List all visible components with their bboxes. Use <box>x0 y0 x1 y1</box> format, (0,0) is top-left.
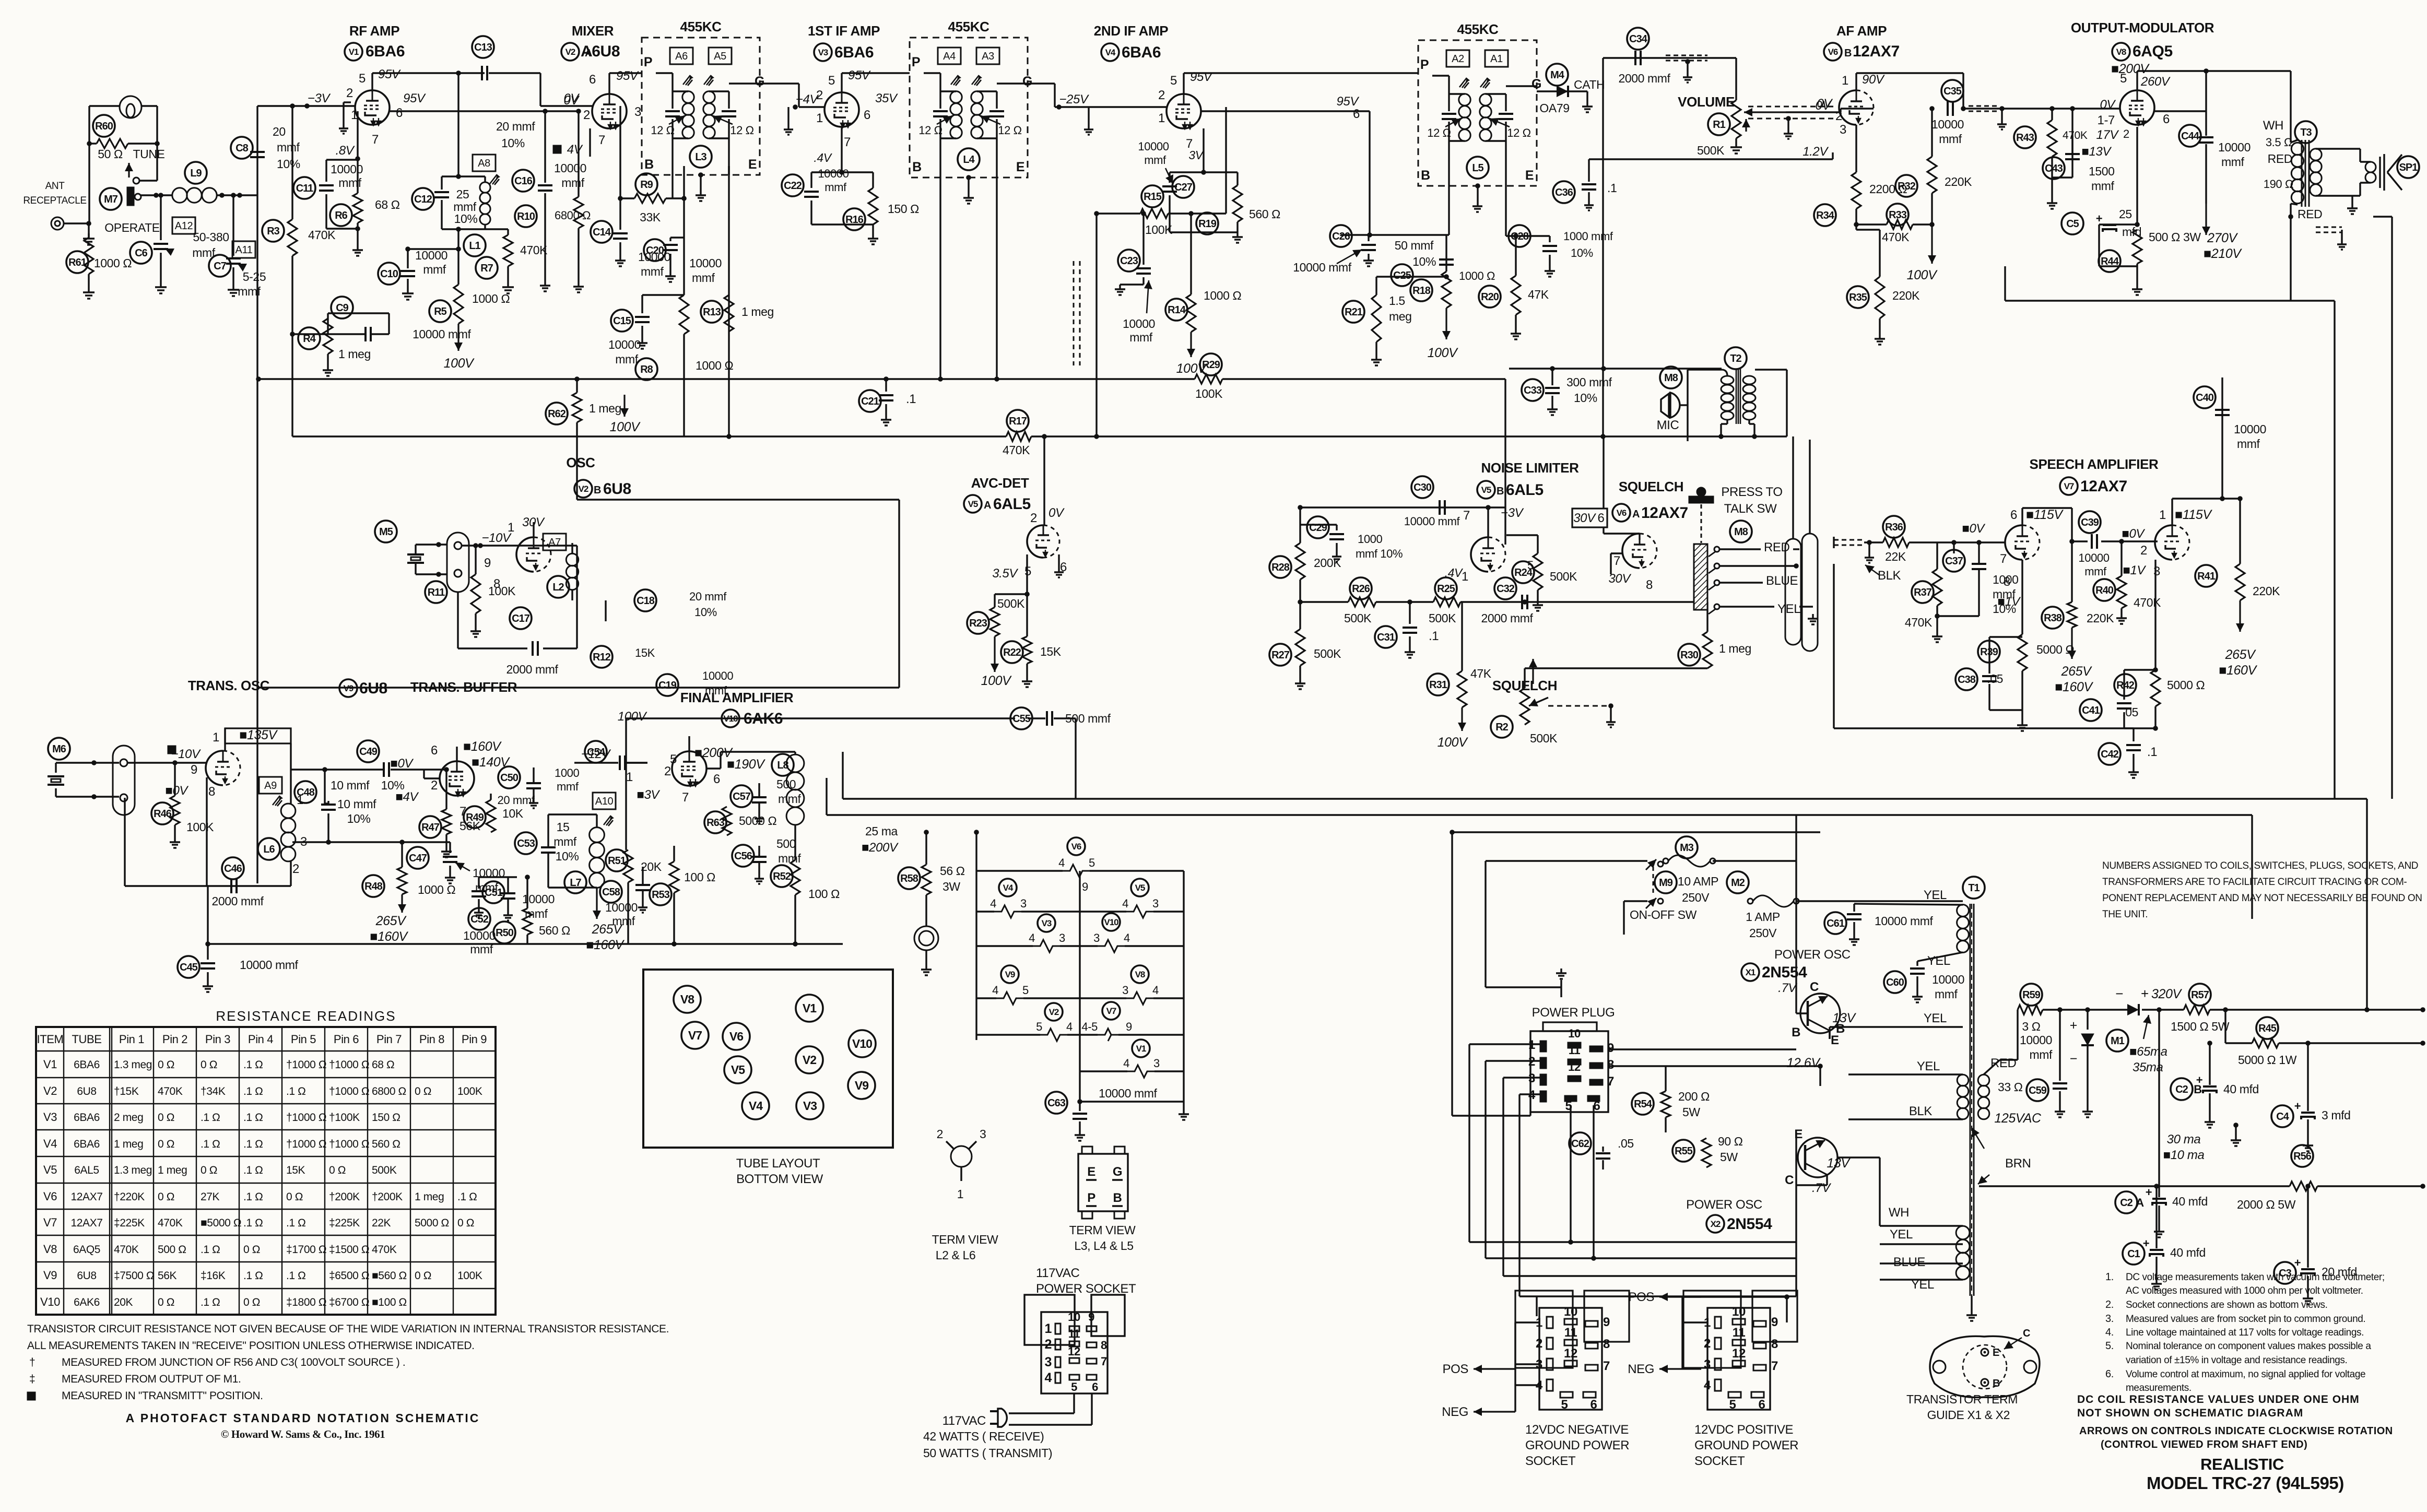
svg-text:Pin 5: Pin 5 <box>291 1033 316 1046</box>
svg-text:T3: T3 <box>2300 127 2312 138</box>
svg-text:mmf: mmf <box>557 780 579 793</box>
svg-text:SQUELCH: SQUELCH <box>1619 479 1683 494</box>
svg-text:V2: V2 <box>565 47 575 57</box>
svg-text:R41: R41 <box>2197 571 2216 582</box>
svg-text:OSC: OSC <box>566 455 595 470</box>
svg-text:2000 mmf: 2000 mmf <box>211 894 264 908</box>
svg-text:TUBE LAYOUT: TUBE LAYOUT <box>736 1156 820 1171</box>
svg-text:6BA6: 6BA6 <box>834 44 874 61</box>
svg-text:POWER OSC: POWER OSC <box>1686 1198 1762 1212</box>
svg-text:1ST IF AMP: 1ST IF AMP <box>808 23 880 39</box>
svg-text:C26: C26 <box>1332 231 1350 242</box>
svg-text:C53: C53 <box>517 838 535 849</box>
svg-text:L3: L3 <box>695 151 706 163</box>
svg-text:C23: C23 <box>1120 255 1138 267</box>
svg-text:33K: 33K <box>640 210 661 224</box>
svg-text:Pin 2: Pin 2 <box>162 1033 187 1046</box>
svg-text:470K: 470K <box>158 1085 183 1097</box>
svg-text:560 Ω: 560 Ω <box>1249 207 1280 221</box>
svg-text:1 meg: 1 meg <box>1719 642 1751 655</box>
svg-text:95V: 95V <box>616 69 639 83</box>
svg-text:12VDC NEGATIVE: 12VDC NEGATIVE <box>1525 1423 1629 1437</box>
svg-text:variation of ±15% in voltage a: variation of ±15% in voltage and resista… <box>2126 1355 2347 1366</box>
svg-text:V8: V8 <box>43 1243 57 1256</box>
svg-text:Volume control at maximum, no: Volume control at maximum, no signal app… <box>2126 1369 2365 1380</box>
svg-text:C8: C8 <box>235 143 248 154</box>
svg-text:R15: R15 <box>1144 191 1162 203</box>
svg-text:R17: R17 <box>1009 416 1027 427</box>
svg-text:†: † <box>29 1356 35 1368</box>
svg-text:CATH: CATH <box>1574 78 1605 91</box>
svg-text:2: 2 <box>1704 1337 1711 1351</box>
svg-text:C7: C7 <box>214 261 226 272</box>
svg-text:150 Ω: 150 Ω <box>888 202 919 216</box>
svg-text:+: + <box>2141 986 2149 1001</box>
svg-text:5000 Ω: 5000 Ω <box>2167 678 2205 692</box>
svg-text:.1 Ω: .1 Ω <box>243 1112 263 1124</box>
svg-text:12 Ω: 12 Ω <box>730 124 753 137</box>
svg-text:10000 mmf: 10000 mmf <box>240 958 298 972</box>
svg-text:6AL5: 6AL5 <box>1506 481 1544 499</box>
svg-text:‡: ‡ <box>29 1373 35 1385</box>
svg-text:15K: 15K <box>635 646 655 659</box>
svg-text:25: 25 <box>456 187 469 201</box>
svg-text:Pin 3: Pin 3 <box>205 1033 230 1046</box>
svg-text:1000 Ω: 1000 Ω <box>472 292 510 305</box>
svg-text:2: 2 <box>431 778 438 793</box>
svg-text:8: 8 <box>2004 575 2010 589</box>
svg-text:.8V: .8V <box>336 144 355 158</box>
svg-text:mmf: mmf <box>824 181 847 194</box>
svg-text:10000: 10000 <box>818 167 849 180</box>
svg-text:E: E <box>1525 168 1534 183</box>
svg-text:22K: 22K <box>1885 550 1906 563</box>
svg-text:6U8: 6U8 <box>359 680 387 697</box>
svg-text:V4: V4 <box>1003 883 1014 893</box>
svg-text:L8: L8 <box>777 760 788 771</box>
svg-text:R1: R1 <box>1713 119 1725 131</box>
svg-text:4: 4 <box>1152 984 1159 997</box>
svg-text:5: 5 <box>1071 1380 1077 1393</box>
svg-text:SP1: SP1 <box>2399 162 2418 173</box>
svg-text:C48: C48 <box>297 787 315 798</box>
svg-text:A10: A10 <box>595 796 614 807</box>
svg-text:C57: C57 <box>733 791 751 802</box>
svg-text:50 WATTS ( TRANSMIT): 50 WATTS ( TRANSMIT) <box>923 1446 1052 1460</box>
svg-text:V3: V3 <box>803 1099 817 1113</box>
svg-text:R57: R57 <box>2191 989 2209 1001</box>
svg-text:4: 4 <box>990 897 996 910</box>
svg-text:R14: R14 <box>1168 304 1186 316</box>
svg-text:C14: C14 <box>593 227 611 238</box>
svg-text:V9: V9 <box>855 1079 868 1092</box>
svg-text:500K: 500K <box>997 597 1025 610</box>
svg-text:V3: V3 <box>818 48 828 57</box>
svg-text:V7: V7 <box>2064 481 2074 491</box>
svg-text:■3V: ■3V <box>637 788 660 802</box>
svg-text:1000: 1000 <box>555 766 580 779</box>
svg-text:R42: R42 <box>2116 680 2135 691</box>
svg-text:3: 3 <box>1153 1057 1160 1070</box>
svg-text:C31: C31 <box>1377 632 1395 643</box>
svg-text:−25V: −25V <box>1059 92 1089 107</box>
svg-text:30 ma: 30 ma <box>2167 1132 2201 1147</box>
svg-text:1: 1 <box>351 108 358 122</box>
svg-text:Pin 9: Pin 9 <box>462 1033 487 1046</box>
svg-text:6: 6 <box>1598 511 1605 525</box>
svg-text:†220K: †220K <box>114 1191 145 1203</box>
svg-text:.1 Ω: .1 Ω <box>243 1217 263 1229</box>
svg-text:V6: V6 <box>43 1190 57 1203</box>
svg-text:.05: .05 <box>2122 705 2138 719</box>
svg-text:MEASURED IN "TRANSMITT" POSITI: MEASURED IN "TRANSMITT" POSITION. <box>62 1390 263 1402</box>
svg-text:R61: R61 <box>68 257 87 268</box>
svg-text:0 Ω: 0 Ω <box>201 1164 217 1176</box>
svg-text:R3: R3 <box>267 226 279 237</box>
svg-text:150 Ω: 150 Ω <box>372 1112 400 1124</box>
svg-text:GUIDE X1 & X2: GUIDE X1 & X2 <box>1927 1408 2010 1422</box>
svg-text:3.5 Ω: 3.5 Ω <box>2266 136 2292 149</box>
svg-text:8: 8 <box>1771 1337 1778 1351</box>
svg-text:3: 3 <box>1059 931 1065 944</box>
svg-text:mmf: mmf <box>277 140 300 154</box>
svg-text:TRANSISTOR TERM: TRANSISTOR TERM <box>1906 1392 2018 1406</box>
svg-text:Pin 8: Pin 8 <box>419 1033 444 1046</box>
svg-text:WH: WH <box>2263 119 2283 133</box>
svg-text:+: + <box>2294 1100 2301 1113</box>
svg-text:6BA6: 6BA6 <box>366 43 405 60</box>
svg-text:−: − <box>2070 1052 2077 1066</box>
svg-text:R27: R27 <box>1271 649 1290 661</box>
svg-text:270V: 270V <box>2207 231 2239 245</box>
svg-text:12AX7: 12AX7 <box>70 1191 102 1203</box>
svg-text:†1000 Ω: †1000 Ω <box>286 1112 326 1124</box>
svg-text:C2: C2 <box>2120 1197 2133 1209</box>
svg-text:V2: V2 <box>43 1084 57 1097</box>
svg-text:5: 5 <box>828 74 835 88</box>
svg-text:47K: 47K <box>1470 667 1492 680</box>
svg-text:†34K: †34K <box>201 1085 226 1097</box>
svg-text:20 mmf: 20 mmf <box>496 120 535 133</box>
svg-text:POWER OSC: POWER OSC <box>1774 948 1851 962</box>
svg-text:C35: C35 <box>1943 86 1962 97</box>
svg-text:7: 7 <box>2000 552 2007 566</box>
svg-text:C56: C56 <box>734 851 752 862</box>
svg-text:C32: C32 <box>1497 583 1515 595</box>
svg-text:■200V: ■200V <box>862 841 899 855</box>
svg-text:M4: M4 <box>1550 69 1565 81</box>
svg-text:R55: R55 <box>1675 1145 1693 1157</box>
svg-text:9: 9 <box>1771 1315 1778 1329</box>
svg-text:C: C <box>2023 1328 2030 1339</box>
svg-text:−12V: −12V <box>581 747 611 761</box>
svg-text:3: 3 <box>1044 1355 1052 1369</box>
svg-text:95V: 95V <box>403 91 426 105</box>
svg-text:†1000 Ω: †1000 Ω <box>286 1138 326 1150</box>
svg-text:1 meg: 1 meg <box>158 1164 187 1176</box>
svg-text:9: 9 <box>1607 1041 1614 1055</box>
svg-text:7: 7 <box>1603 1359 1610 1373</box>
svg-text:10000: 10000 <box>1931 117 1964 131</box>
svg-text:POWER PLUG: POWER PLUG <box>1532 1006 1615 1020</box>
svg-text:†15K: †15K <box>114 1085 139 1097</box>
svg-text:2N554: 2N554 <box>1727 1215 1772 1233</box>
svg-text:470K: 470K <box>1905 616 1933 629</box>
svg-text:R63: R63 <box>706 817 725 829</box>
svg-text:1.: 1. <box>2105 1271 2114 1283</box>
svg-text:4: 4 <box>992 984 998 997</box>
svg-text:R22: R22 <box>1003 647 1021 658</box>
svg-text:455KC: 455KC <box>680 19 722 34</box>
svg-text:■4V: ■4V <box>395 790 419 804</box>
svg-text:G: G <box>1531 77 1541 91</box>
svg-text:V1: V1 <box>803 1001 817 1015</box>
svg-text:M8: M8 <box>1734 526 1748 538</box>
svg-text:C15: C15 <box>613 315 631 327</box>
svg-text:X1: X1 <box>1746 967 1756 977</box>
svg-text:1.2V: 1.2V <box>1802 145 1829 159</box>
svg-text:265V: 265V <box>375 914 407 928</box>
svg-text:2: 2 <box>583 108 590 122</box>
svg-text:4: 4 <box>1044 1371 1052 1385</box>
svg-text:C60: C60 <box>1886 977 1904 988</box>
svg-text:2000 Ω 5W: 2000 Ω 5W <box>2237 1198 2296 1211</box>
svg-text:mmf: mmf <box>553 835 577 848</box>
svg-text:V1: V1 <box>349 47 359 57</box>
svg-text:100V: 100V <box>444 356 475 371</box>
svg-text:BLUE: BLUE <box>1893 1255 1925 1269</box>
svg-text:200K: 200K <box>1314 556 1341 570</box>
svg-text:G: G <box>755 74 764 89</box>
svg-text:5W: 5W <box>1682 1105 1700 1119</box>
svg-text:6800 Ω: 6800 Ω <box>372 1085 406 1097</box>
svg-text:1500 Ω 5W: 1500 Ω 5W <box>2171 1020 2230 1033</box>
svg-text:100K: 100K <box>1195 387 1223 400</box>
svg-text:C29: C29 <box>1309 522 1327 534</box>
svg-text:C43: C43 <box>2045 163 2063 174</box>
svg-text:■0V: ■0V <box>2122 527 2145 541</box>
svg-text:B: B <box>1421 168 1430 183</box>
svg-text:1: 1 <box>1044 1321 1052 1336</box>
svg-text:5: 5 <box>1170 74 1177 88</box>
svg-text:C49: C49 <box>359 746 378 758</box>
svg-text:3 Ω: 3 Ω <box>2022 1020 2040 1033</box>
svg-text:8: 8 <box>1603 1337 1610 1351</box>
svg-text:100V: 100V <box>610 420 641 434</box>
svg-text:C22: C22 <box>784 180 802 192</box>
svg-text:R34: R34 <box>1816 210 1835 221</box>
svg-text:9: 9 <box>484 556 491 570</box>
svg-text:12 Ω: 12 Ω <box>998 124 1021 137</box>
svg-text:V6: V6 <box>1071 842 1081 852</box>
svg-text:MEASURED FROM OUTPUT OF M1.: MEASURED FROM OUTPUT OF M1. <box>62 1373 241 1385</box>
svg-text:AVC-DET: AVC-DET <box>971 475 1029 491</box>
svg-text:†1000 Ω: †1000 Ω <box>329 1085 369 1097</box>
svg-text:6BA6: 6BA6 <box>1122 44 1161 61</box>
svg-text:C37: C37 <box>1945 556 1963 567</box>
svg-text:1: 1 <box>1462 570 1468 584</box>
svg-text:C: C <box>1785 1173 1794 1187</box>
svg-text:A: A <box>2136 1196 2144 1209</box>
svg-text:22K: 22K <box>372 1217 391 1229</box>
svg-text:90V: 90V <box>1862 73 1885 87</box>
svg-text:C47: C47 <box>409 853 427 864</box>
svg-text:■190V: ■190V <box>727 757 765 772</box>
svg-text:12VDC POSITIVE: 12VDC POSITIVE <box>1694 1423 1793 1437</box>
svg-text:2: 2 <box>937 1127 943 1141</box>
svg-text:ALL MEASUREMENTS TAKEN IN "REC: ALL MEASUREMENTS TAKEN IN "RECEIVE" POSI… <box>27 1340 475 1352</box>
svg-text:10%: 10% <box>1571 246 1593 259</box>
svg-text:V2: V2 <box>1049 1007 1059 1017</box>
svg-text:†200K: †200K <box>329 1191 360 1203</box>
svg-text:C45: C45 <box>180 962 198 973</box>
svg-text:V6: V6 <box>729 1030 743 1043</box>
svg-text:Line voltage maintained at 117: Line voltage maintained at 117 volts for… <box>2126 1327 2364 1338</box>
svg-text:C50: C50 <box>500 772 519 784</box>
svg-text:mmf: mmf <box>423 263 446 276</box>
svg-text:V9: V9 <box>1005 970 1015 979</box>
svg-text:mmf: mmf <box>561 176 585 190</box>
svg-text:10000: 10000 <box>1932 973 1964 986</box>
svg-text:12 Ω: 12 Ω <box>918 124 942 137</box>
svg-text:40 mfd: 40 mfd <box>2223 1082 2259 1096</box>
svg-text:100 Ω: 100 Ω <box>684 870 715 884</box>
svg-text:C18: C18 <box>637 595 655 607</box>
svg-text:Pin 7: Pin 7 <box>376 1033 402 1046</box>
svg-text:ITEM: ITEM <box>37 1033 64 1046</box>
svg-text:0 Ω: 0 Ω <box>286 1191 303 1203</box>
svg-text:POWER SOCKET: POWER SOCKET <box>1036 1282 1136 1296</box>
svg-text:RF AMP: RF AMP <box>349 23 399 39</box>
svg-text:A: A <box>984 500 991 511</box>
svg-text:RED: RED <box>1990 1056 2017 1070</box>
svg-text:1: 1 <box>1842 74 1848 88</box>
svg-text:V10: V10 <box>40 1295 60 1308</box>
svg-text:R54: R54 <box>1634 1098 1653 1110</box>
svg-text:250V: 250V <box>1749 926 1777 940</box>
svg-text:470K: 470K <box>308 228 336 242</box>
svg-text:■160V: ■160V <box>2055 680 2093 694</box>
svg-text:A5: A5 <box>714 51 726 62</box>
svg-text:V7: V7 <box>1106 1006 1116 1016</box>
svg-text:M9: M9 <box>1659 877 1673 889</box>
svg-text:TERM VIEW: TERM VIEW <box>932 1233 998 1246</box>
svg-text:470K: 470K <box>372 1244 397 1256</box>
svg-text:‡1500 Ω: ‡1500 Ω <box>329 1244 369 1256</box>
svg-text:R47: R47 <box>421 822 440 833</box>
svg-text:Socket connections are shown a: Socket connections are shown as bottom v… <box>2126 1300 2327 1310</box>
svg-text:‡225K: ‡225K <box>114 1217 145 1229</box>
svg-text:5: 5 <box>1036 1020 1042 1033</box>
svg-text:DC COIL RESISTANCE VALUES: DC COIL RESISTANCE VALUES UNDER ONE OHM <box>2077 1393 2360 1405</box>
svg-text:8: 8 <box>1646 578 1653 592</box>
svg-text:NOISE LIMITER: NOISE LIMITER <box>1481 460 1580 476</box>
svg-text:V8: V8 <box>2116 47 2126 57</box>
svg-text:.1 Ω: .1 Ω <box>286 1085 305 1097</box>
svg-text:6BA6: 6BA6 <box>74 1112 100 1124</box>
svg-text:BLK: BLK <box>1909 1104 1933 1118</box>
svg-text:PONENT REPLACEMENT AND MAY NOT: PONENT REPLACEMENT AND MAY NOT NECESSARI… <box>2102 893 2422 904</box>
svg-text:.1: .1 <box>1429 629 1439 643</box>
svg-text:A3: A3 <box>982 51 994 62</box>
svg-text:6.: 6. <box>2105 1368 2114 1380</box>
svg-text:500: 500 <box>776 837 796 851</box>
svg-text:90 Ω: 90 Ω <box>1718 1135 1743 1148</box>
svg-text:M6: M6 <box>52 743 66 755</box>
svg-text:OUTPUT-MODULATOR: OUTPUT-MODULATOR <box>2071 20 2214 36</box>
svg-text:meg: meg <box>1389 310 1412 323</box>
svg-text:TALK SW: TALK SW <box>1724 502 1777 516</box>
svg-text:V7: V7 <box>43 1216 57 1229</box>
svg-text:1000: 1000 <box>1358 533 1383 546</box>
svg-text:6: 6 <box>1590 1398 1597 1412</box>
svg-text:C1: C1 <box>2127 1248 2140 1260</box>
svg-text:■115V: ■115V <box>2026 507 2064 522</box>
svg-text:5: 5 <box>1729 1398 1736 1412</box>
svg-text:10000: 10000 <box>2078 551 2109 564</box>
svg-text:0 Ω: 0 Ω <box>457 1217 474 1229</box>
svg-text:■160V: ■160V <box>370 929 408 944</box>
svg-text:10000: 10000 <box>554 161 586 175</box>
svg-text:95V: 95V <box>378 67 401 81</box>
svg-text:R28: R28 <box>1271 562 1290 573</box>
svg-text:R21: R21 <box>1345 306 1363 318</box>
svg-text:117VAC: 117VAC <box>1036 1266 1079 1280</box>
svg-text:B: B <box>912 160 922 174</box>
svg-text:.1: .1 <box>906 392 916 406</box>
svg-text:BRN: BRN <box>2005 1156 2031 1171</box>
svg-text:V1: V1 <box>1136 1044 1146 1054</box>
svg-text:25 ma: 25 ma <box>865 824 898 838</box>
svg-text:1 meg: 1 meg <box>338 347 371 361</box>
svg-text:C17: C17 <box>512 613 530 624</box>
svg-text:2 meg: 2 meg <box>114 1112 143 1124</box>
svg-text:30V: 30V <box>1608 572 1631 586</box>
svg-text:TRANSISTOR CIRCUIT RESISTANCE: TRANSISTOR CIRCUIT RESISTANCE NOT GIVEN … <box>27 1323 669 1335</box>
svg-text:0 Ω: 0 Ω <box>243 1244 260 1256</box>
svg-text:mmf: mmf <box>525 907 548 920</box>
svg-text:R20: R20 <box>1481 291 1499 303</box>
svg-text:20 mmf: 20 mmf <box>498 794 535 807</box>
svg-text:10 mmf: 10 mmf <box>337 797 376 811</box>
svg-text:0 Ω: 0 Ω <box>329 1164 346 1176</box>
svg-text:R59: R59 <box>2022 989 2041 1001</box>
svg-text:V8: V8 <box>1135 970 1145 979</box>
svg-text:R62: R62 <box>548 408 566 420</box>
svg-text:3: 3 <box>1704 1357 1711 1372</box>
svg-text:10000 mmf: 10000 mmf <box>1293 261 1351 274</box>
svg-text:20K: 20K <box>114 1296 133 1308</box>
svg-text:10%: 10% <box>1412 255 1436 268</box>
svg-text:M5: M5 <box>379 526 393 538</box>
svg-text:2ND IF AMP: 2ND IF AMP <box>1094 23 1168 39</box>
svg-text:G: G <box>1022 74 1032 89</box>
svg-text:12 Ω: 12 Ω <box>1507 126 1530 139</box>
svg-text:V9: V9 <box>344 683 354 693</box>
svg-text:10000: 10000 <box>605 901 638 914</box>
svg-text:4.: 4. <box>2105 1327 2114 1338</box>
svg-text:R16: R16 <box>845 214 864 226</box>
svg-text:12: 12 <box>1564 1346 1577 1361</box>
svg-text:10%: 10% <box>1574 391 1597 405</box>
svg-text:TUNE: TUNE <box>133 147 164 161</box>
svg-text:FINAL AMPLIFIER: FINAL AMPLIFIER <box>680 690 794 705</box>
svg-text:M7: M7 <box>104 194 118 205</box>
svg-text:1: 1 <box>1158 111 1165 125</box>
svg-text:C63: C63 <box>1047 1097 1066 1109</box>
svg-text:10: 10 <box>1732 1305 1746 1319</box>
svg-text:mmf: mmf <box>2029 1048 2053 1061</box>
